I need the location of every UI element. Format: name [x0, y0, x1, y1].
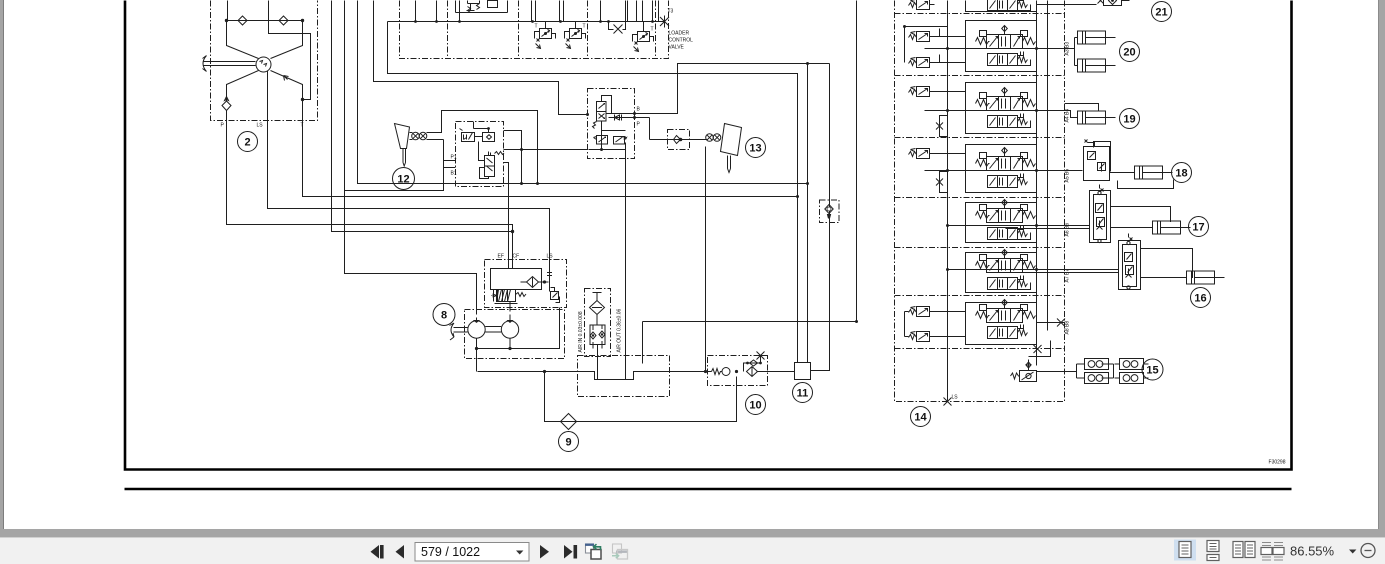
sec20 main spool [976, 26, 1036, 49]
pump circle 2 [501, 321, 518, 338]
sec17 wires right [1111, 207, 1171, 228]
svg-text:LS: LS [257, 123, 264, 129]
tank return standpipe [642, 322, 644, 364]
bank enclosure [895, 1, 1065, 402]
wire pump pressure to bank [643, 1, 857, 322]
svg-text:A6 B6: A6 B6 [1065, 223, 1071, 237]
sec18 sub spool [988, 174, 1028, 188]
svg-text:86.55%: 86.55% [1290, 544, 1335, 559]
svg-text:AIR IN 0.03±0.008: AIR IN 0.03±0.008 [578, 311, 584, 352]
svg-text:AIR OUT 0.36±0.06: AIR OUT 0.36±0.06 [617, 308, 623, 352]
sec18 plug X [935, 154, 966, 193]
sec15 pilot a [909, 307, 935, 317]
circled 8 [433, 304, 455, 326]
pump shaft [485, 327, 501, 333]
sec16 work wire [948, 270, 1119, 273]
wire module12 to module-right [504, 149, 588, 151]
svg-text:F30298: F30298 [1269, 460, 1286, 466]
sec15 left wires [905, 312, 966, 337]
svg-text:P: P [221, 123, 225, 129]
title block separator line [125, 488, 1292, 491]
sec18 cylinder [1135, 166, 1173, 179]
bank section divider y137 [895, 137, 1065, 139]
joystick 13 lever [721, 124, 742, 173]
steering unit rotor circle [256, 57, 271, 72]
sec17 main spool [976, 200, 1036, 223]
svg-text:CF: CF [513, 254, 520, 260]
steering top feed [227, 1, 229, 21]
unloader valve cluster top [456, 1, 508, 22]
sec14 inlet valve [1011, 373, 1020, 379]
aux module P line [609, 115, 650, 121]
bank section divider y348 [895, 348, 1065, 350]
pump circle 1 [468, 321, 485, 338]
prev page button [396, 545, 405, 559]
sec16 sub spool [988, 276, 1028, 290]
sec17 lock valve block [1090, 191, 1111, 243]
joystick 13 ports [706, 134, 714, 142]
sec20 pilot b [909, 58, 935, 68]
check valve 13 enclosure [668, 130, 690, 150]
sec15 motor c [1115, 359, 1149, 370]
steering check diamonds [227, 16, 303, 25]
bank supply rail 1 [947, 1, 949, 401]
T3 star [655, 16, 669, 28]
next view button (disabled) [613, 544, 622, 553]
circled 15 [1142, 359, 1163, 380]
LS relief [551, 288, 560, 303]
circled 2 [238, 132, 258, 152]
circled 19 [1120, 109, 1140, 129]
svg-text:EF: EF [498, 254, 504, 260]
circled 10 [746, 395, 766, 415]
sec21 wires [1018, 5, 1097, 11]
regulator spool [494, 290, 518, 304]
next page button [540, 545, 549, 559]
svg-text:T: T [535, 24, 538, 30]
check 10 spring and ball [712, 369, 723, 375]
svg-text:P: P [637, 122, 641, 128]
circled 16 [1191, 288, 1211, 308]
svg-text:14: 14 [914, 412, 927, 424]
svg-text:LS: LS [547, 254, 554, 260]
first page button [371, 545, 380, 559]
bank pilot rail [904, 27, 906, 337]
sec15 motor a [1080, 359, 1109, 370]
sec19 main spool [976, 88, 1036, 111]
sec19 pilot [909, 87, 935, 97]
circled 21 [1152, 2, 1172, 22]
svg-text:A8 B8: A8 B8 [1065, 321, 1071, 335]
regulator orifice diamond [521, 277, 549, 288]
module 12 enclosure [456, 122, 504, 187]
sec18 main spool [976, 148, 1036, 171]
svg-text:A7 B7: A7 B7 [1065, 269, 1071, 283]
wire P from steering [227, 115, 513, 269]
sec15 work wires [1037, 364, 1085, 378]
aux module drain [589, 121, 626, 150]
svg-text:8: 8 [441, 310, 447, 322]
svg-text:18: 18 [1175, 168, 1187, 180]
wire riser e to valve module [374, 1, 588, 115]
sec16 main spool [976, 250, 1036, 273]
sec17 inner box [966, 203, 1037, 243]
sec19 plug X [935, 92, 966, 137]
sec15 inner box [966, 303, 1037, 345]
regulator enclosure [485, 260, 567, 308]
sec17 cylinder [1153, 221, 1191, 234]
svg-text:17: 17 [1192, 222, 1204, 234]
svg-text:13: 13 [749, 143, 761, 155]
sec20 work wires [925, 42, 1073, 66]
wire riser d drain [358, 1, 808, 184]
two page mode [1233, 542, 1243, 558]
return filter line [545, 372, 737, 422]
sec20 cylinder a [1078, 31, 1116, 44]
svg-text:VALVE: VALVE [669, 45, 685, 51]
svg-text:11: 11 [797, 388, 809, 400]
bank section divider y13 [895, 13, 1065, 15]
single page mode (active) [1174, 540, 1196, 561]
circled 11 [793, 383, 813, 403]
sec18 brake valve block [1084, 147, 1110, 181]
wire riser a [332, 1, 513, 232]
LS branch [547, 269, 552, 292]
sec17 work wire [948, 226, 1090, 229]
svg-text:CONTROL: CONTROL [669, 38, 694, 44]
steering unit diagonal links [227, 21, 303, 122]
breather check box [590, 325, 605, 345]
loader control valve enclosure [400, 1, 669, 59]
steering input shaft [203, 56, 256, 72]
pump inlet arrows [477, 315, 511, 322]
sec20 cylinder bracket [1073, 38, 1078, 66]
sec16 cylinder [1187, 271, 1225, 284]
loader valve inner dividers [447, 1, 449, 59]
wire CF riser [504, 163, 509, 269]
svg-text:B: B [637, 107, 641, 113]
wire T from steering to tank [303, 89, 798, 197]
svg-text:B1: B1 [451, 171, 457, 177]
breather sub box [585, 289, 611, 357]
aux module tank drop [625, 150, 627, 380]
joystick 12 ports [412, 132, 420, 140]
aux module sub valves [594, 136, 608, 145]
steering inlet check valve [222, 97, 231, 122]
sec14 shuttle stub [1026, 341, 1051, 371]
aux module enclosure [588, 89, 635, 159]
sec17 sub spool [988, 226, 1028, 240]
check 10 enclosure [708, 356, 768, 386]
zoom out button [1361, 544, 1375, 558]
bank supply rail 2 [1036, 1, 1038, 366]
inline valve symbol [825, 205, 833, 214]
sec18 work wire [925, 170, 1083, 172]
wire gallery drop tank return [388, 22, 798, 363]
joystick 12 lever [395, 124, 410, 167]
sec15 main spool [976, 300, 1036, 323]
module 12 spool [485, 152, 495, 177]
breather filter diamond [590, 293, 605, 326]
svg-text:19: 19 [1123, 114, 1135, 126]
steering unit enclosure [211, 1, 318, 121]
check 10 bypass [744, 360, 761, 377]
relief valve 2 [565, 22, 586, 49]
sec20 cylinder b [1078, 59, 1116, 72]
sec20 pilot a [909, 32, 935, 42]
svg-text:12: 12 [397, 174, 409, 186]
svg-text:20: 20 [1123, 47, 1135, 59]
reducer a [460, 129, 475, 142]
svg-text:16: 16 [1194, 293, 1206, 305]
bank section divider y247 [895, 247, 1065, 249]
sec15 plug X right [1037, 319, 1066, 327]
sec15 motor d [1115, 373, 1149, 384]
svg-text:T: T [583, 24, 586, 30]
previous view button [586, 544, 594, 553]
main gallery line [388, 21, 665, 23]
sec14 LS port [944, 383, 952, 406]
breather drop [597, 345, 599, 380]
sec21 inner box [966, 1, 1037, 12]
aux module spool [597, 102, 607, 122]
regulator internal wires [509, 302, 511, 312]
sec18 inner box [966, 145, 1037, 193]
circled 20 [1120, 42, 1140, 62]
tank square [795, 363, 811, 380]
wire riser c to pump [345, 1, 477, 315]
steering top bypass [269, 1, 311, 100]
svg-text:T: T [651, 27, 654, 33]
circled 14 [911, 407, 931, 427]
wire tank standpipe [807, 64, 809, 363]
svg-text:T3: T3 [668, 9, 674, 15]
circled 9 [559, 432, 579, 452]
sec20 left wires [905, 27, 966, 63]
sec21 sub spool [988, 0, 1028, 11]
sec19 inner box [966, 83, 1037, 134]
wire valve12 T drain [504, 131, 522, 184]
svg-text:15: 15 [1146, 365, 1158, 377]
sec15 pilot b [909, 332, 935, 342]
relief valve 3 [633, 22, 654, 52]
sec16 wires right [1141, 249, 1193, 279]
check valve 13 symbol [650, 136, 708, 144]
svg-text:LOADER: LOADER [669, 31, 690, 37]
steering feedback arrow [284, 76, 289, 81]
aux module B line [606, 64, 830, 114]
main suction line [478, 372, 712, 380]
circled 17 [1189, 217, 1209, 237]
svg-text:579 / 1022: 579 / 1022 [421, 545, 480, 559]
circled 12 [393, 168, 415, 190]
bank section divider y295 [895, 295, 1065, 297]
page number combo [415, 543, 529, 562]
sec21 pilot [909, 0, 935, 10]
module 12 port stubs [444, 161, 456, 168]
sec20 sub spool [988, 52, 1028, 66]
sec19 work wire [925, 111, 1078, 118]
regulator body [491, 269, 542, 290]
aux module upper loop [602, 96, 612, 114]
pump case drain loop [477, 308, 560, 372]
wire joystick13 down [705, 147, 707, 372]
svg-text:2: 2 [244, 137, 250, 149]
plug X symbol [609, 22, 626, 34]
last page button [564, 545, 573, 559]
sec19 sub spool [988, 114, 1028, 128]
drawing sheet border frame [125, 1, 1292, 470]
reservoir enclosure [578, 356, 670, 397]
filter 9 diamond [561, 414, 577, 430]
svg-text:10: 10 [749, 400, 761, 412]
bank section divider y75 [895, 75, 1065, 77]
circled 13 [746, 138, 766, 158]
sec21 valve [1098, 0, 1130, 6]
sec19 cylinder [1078, 111, 1116, 124]
gallery drop wires [416, 1, 659, 22]
sec15 motor b [1080, 373, 1109, 384]
sec15 sub spool [988, 325, 1028, 339]
pump drive input [450, 323, 468, 340]
svg-text:LS: LS [952, 395, 959, 401]
sec18 pilot [909, 149, 935, 159]
continuous mode [1207, 541, 1219, 561]
wire LS from steering [268, 71, 550, 269]
sec16 lock valve block [1119, 241, 1141, 290]
reducer b [483, 133, 495, 142]
svg-text:P1: P1 [451, 155, 457, 161]
svg-text:21: 21 [1155, 7, 1167, 19]
tank side wire [811, 64, 830, 371]
check 10 outlet [757, 371, 795, 373]
sec14 divider plug X [1034, 345, 1042, 353]
relief valve 1 [535, 22, 556, 49]
inline valve enclosure [820, 200, 840, 223]
svg-text:9: 9 [565, 437, 571, 449]
bank section divider y197 [895, 197, 1065, 199]
sec20 inner box [966, 21, 1037, 72]
circled 18 [1172, 163, 1192, 183]
wire joystick loop [345, 140, 444, 191]
bank supply rail 3 [1047, 1, 1049, 331]
pump enclosure [465, 310, 565, 359]
sec16 inner box [966, 253, 1037, 293]
two page continuous mode [1262, 543, 1283, 561]
